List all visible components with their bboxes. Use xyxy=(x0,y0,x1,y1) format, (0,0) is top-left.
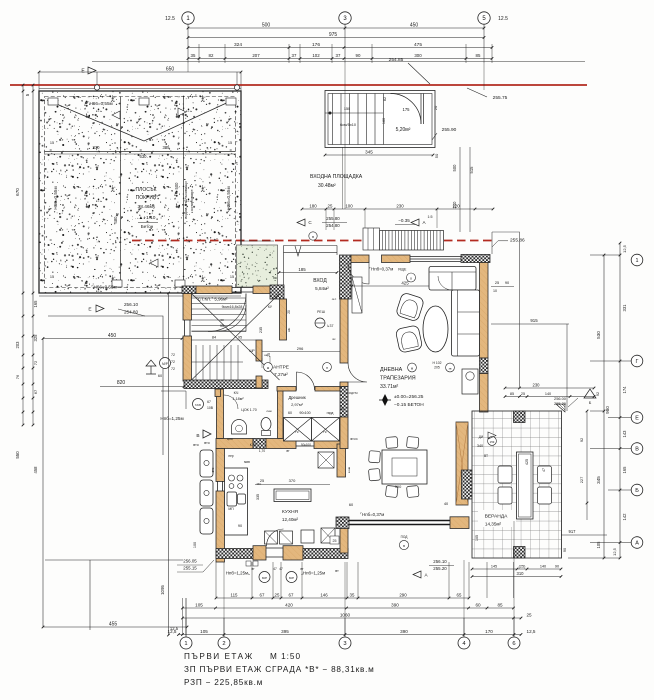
svg-text:2: 2 xyxy=(222,641,225,647)
svg-text:160: 160 xyxy=(382,118,386,124)
horizontal line y560 west xyxy=(45,559,183,561)
right chain line outer xyxy=(619,243,621,558)
wardrobe door arc xyxy=(297,372,315,391)
circled tag xyxy=(407,273,416,282)
svg-text:255.75: 255.75 xyxy=(493,95,508,101)
partition WC / wardrobe xyxy=(278,391,284,439)
marker B veranda xyxy=(488,432,496,439)
svg-text:255.20: 255.20 xyxy=(554,401,567,406)
veranda right ext line xyxy=(586,411,588,520)
svg-text:20: 20 xyxy=(433,105,438,110)
veranda ramp mark xyxy=(556,404,565,412)
svg-text:ПОКРИВ: ПОКРИВ xyxy=(136,195,157,201)
svg-text:142: 142 xyxy=(622,513,627,521)
dining chairs top xyxy=(386,437,398,449)
dining chairs left xyxy=(369,451,381,463)
vertical ext line x43 xyxy=(42,339,44,628)
circled tag dining xyxy=(399,540,408,549)
svg-text:450: 450 xyxy=(410,22,419,28)
svg-text:гард: гард xyxy=(327,411,334,415)
grille side steps left xyxy=(363,228,380,250)
svg-text:25: 25 xyxy=(328,203,333,208)
dim 185 vestibule xyxy=(279,272,337,274)
svg-text:500: 500 xyxy=(174,182,179,190)
dim 820 xyxy=(100,386,184,388)
svg-text:76: 76 xyxy=(15,374,20,379)
WC door arc xyxy=(224,395,238,409)
svg-text:180: 180 xyxy=(309,203,317,208)
svg-text:92: 92 xyxy=(596,392,600,396)
svg-text:ПОД: ПОД xyxy=(401,535,409,539)
svg-text:425: 425 xyxy=(525,459,529,465)
svg-text:230: 230 xyxy=(396,203,404,208)
svg-text:вт: вт xyxy=(286,449,290,453)
vestibule fixtures xyxy=(352,277,362,313)
axis line x345 xyxy=(343,63,346,209)
svg-text:H66=0,55м: H66=0,55м xyxy=(226,186,231,209)
overall 1095 vertical xyxy=(168,293,170,635)
bottom dim row 4 xyxy=(179,634,522,636)
svg-text:12,5: 12,5 xyxy=(622,244,627,253)
armchair 2 xyxy=(395,325,422,353)
svg-text:140: 140 xyxy=(540,564,546,568)
axis circle 5 top xyxy=(478,12,490,24)
svg-text:207: 207 xyxy=(252,53,260,58)
veranda posts xyxy=(514,411,526,423)
dim row 324/176/475 xyxy=(188,47,492,49)
svg-text:Бетон: Бетон xyxy=(141,224,154,229)
svg-text:105: 105 xyxy=(195,602,203,607)
svg-text:975: 975 xyxy=(329,32,338,38)
toilet xyxy=(261,418,271,431)
svg-text:820: 820 xyxy=(117,380,126,386)
stove circles xyxy=(229,475,235,481)
svg-text:290: 290 xyxy=(399,592,407,597)
svg-text:915: 915 xyxy=(530,318,538,323)
svg-text:Е: Е xyxy=(635,415,639,421)
svg-text:±0.00=256.25: ±0.00=256.25 xyxy=(394,394,424,400)
roof drain boxes top xyxy=(48,98,58,105)
svg-text:12,5: 12,5 xyxy=(612,547,617,556)
svg-text:15: 15 xyxy=(50,141,54,145)
svg-text:К.УЗ: К.УЗ xyxy=(250,443,257,447)
svg-text:255.80: 255.80 xyxy=(326,216,340,221)
svg-text:185: 185 xyxy=(298,267,306,272)
svg-text:390: 390 xyxy=(395,484,402,489)
wardrobe north wall xyxy=(277,387,296,392)
dim row 500/450 xyxy=(188,27,484,29)
kitchen north wall xyxy=(216,439,253,449)
svg-text:170: 170 xyxy=(485,629,493,634)
svg-text:1095: 1095 xyxy=(160,585,165,595)
svg-text:ФУКС: ФУКС xyxy=(350,437,359,441)
svg-text:146: 146 xyxy=(320,592,328,597)
svg-text:480: 480 xyxy=(113,216,118,224)
svg-text:25: 25 xyxy=(526,612,532,617)
svg-text:6: 6 xyxy=(512,641,515,647)
kitchen south wall xyxy=(216,549,253,559)
svg-text:ВТ: ВТ xyxy=(484,454,488,458)
svg-text:25: 25 xyxy=(275,592,280,597)
circled M/P tag xyxy=(160,358,171,369)
svg-text:65: 65 xyxy=(457,592,462,597)
circled tags hall xyxy=(264,363,273,372)
small hatch marks near green block xyxy=(240,240,274,242)
roof valley line left xyxy=(47,100,144,141)
roof drain boxes bottom xyxy=(112,280,122,287)
svg-text:25: 25 xyxy=(521,392,525,396)
svg-text:85: 85 xyxy=(510,392,514,396)
svg-text:огл: огл xyxy=(332,297,337,301)
svg-text:М/Р: М/Р xyxy=(162,362,168,366)
hall dim 296 xyxy=(262,351,340,353)
svg-text:105: 105 xyxy=(475,535,479,541)
svg-text:120: 120 xyxy=(452,203,460,208)
terrace outline line right xyxy=(492,232,520,388)
svg-text:310: 310 xyxy=(517,571,525,576)
svg-text:мив: мив xyxy=(244,460,250,464)
left lower dim chain xyxy=(23,316,33,425)
svg-text:256.10: 256.10 xyxy=(433,559,447,564)
svg-text:ШК: ШК xyxy=(287,328,291,333)
svg-text:475: 475 xyxy=(414,42,422,48)
svg-text:37: 37 xyxy=(292,53,297,58)
svg-text:12.5: 12.5 xyxy=(165,16,175,22)
svg-text:Hпб=1,25м⌞: Hпб=1,25м⌞ xyxy=(226,571,250,576)
svg-text:3: 3 xyxy=(343,641,346,647)
entry stair treads xyxy=(332,94,334,145)
kitchen door arc bottom xyxy=(267,529,284,546)
roof horizontal division xyxy=(45,151,236,153)
svg-text:980: 980 xyxy=(605,406,610,414)
sink xyxy=(227,492,237,506)
dining SE checker xyxy=(462,470,473,499)
circled thermo xyxy=(315,318,325,328)
marker E west xyxy=(96,305,104,312)
red dashed level line 255.86 xyxy=(132,240,492,242)
svg-text:20: 20 xyxy=(287,310,291,314)
svg-text:140: 140 xyxy=(545,392,551,396)
living west wall door gap arc xyxy=(348,363,367,382)
svg-text:370: 370 xyxy=(289,478,296,483)
stair treads xyxy=(192,297,247,299)
svg-text:165: 165 xyxy=(33,300,38,308)
axis circle 3 top xyxy=(339,12,351,24)
svg-text:254.80: 254.80 xyxy=(326,223,340,228)
kitchen west wall xyxy=(216,449,225,482)
svg-text:324: 324 xyxy=(234,42,242,48)
svg-text:10В: 10В xyxy=(207,406,214,410)
svg-text:15: 15 xyxy=(230,275,234,279)
roof inner dashed border xyxy=(45,97,236,288)
kitchen counter left xyxy=(225,468,248,535)
marker A xyxy=(411,219,419,226)
svg-text:12,5: 12,5 xyxy=(527,629,536,634)
svg-text:50: 50 xyxy=(434,153,439,158)
svg-text:6см/5х10: 6см/5х10 xyxy=(340,123,356,127)
svg-text:60: 60 xyxy=(158,374,162,378)
living east wall checker xyxy=(480,358,489,374)
entrance grille steps xyxy=(380,231,444,251)
svg-text:1:5: 1:5 xyxy=(428,215,433,219)
svg-text:650: 650 xyxy=(166,66,175,72)
living NE corner checker xyxy=(461,255,490,263)
svg-text:ЗП ПЪРВИ ЕТАЖ СГРАДА *В* − 88,: ЗП ПЪРВИ ЕТАЖ СГРАДА *В* − 88,31кв.м xyxy=(184,665,375,674)
svg-text:H66=0,55м: H66=0,55м xyxy=(53,186,58,209)
roof vertical division 2 xyxy=(183,97,185,288)
svg-text:10: 10 xyxy=(493,289,497,293)
tick squares south wall xyxy=(246,561,251,566)
svg-text:84: 84 xyxy=(212,336,216,340)
svg-text:203: 203 xyxy=(15,341,20,349)
svg-text:455: 455 xyxy=(109,621,118,627)
svg-text:67: 67 xyxy=(289,592,294,597)
svg-text:ЦОК 1.70: ЦОК 1.70 xyxy=(241,408,256,412)
veranda table xyxy=(517,452,534,519)
sofa corner cushion xyxy=(438,276,452,290)
svg-text:М 1:50: М 1:50 xyxy=(270,652,301,661)
svg-text:1: 1 xyxy=(184,641,187,647)
green planter block mid xyxy=(237,245,278,287)
svg-text:В: В xyxy=(635,446,639,452)
living north window xyxy=(410,257,461,262)
dim 450 xyxy=(43,338,182,340)
svg-text:о: о xyxy=(410,277,412,281)
axis ext verticals bottom xyxy=(223,562,225,637)
svg-text:(25): (25) xyxy=(519,564,526,568)
svg-text:МП: МП xyxy=(228,507,234,511)
vertical x90 xyxy=(89,560,91,630)
svg-text:174: 174 xyxy=(622,386,627,394)
right chain stub lines xyxy=(568,255,631,558)
svg-text:105: 105 xyxy=(200,629,208,634)
svg-text:Дрешник: Дрешник xyxy=(288,395,306,400)
svg-text:ДИ: ДИ xyxy=(479,435,484,439)
svg-text:B: B xyxy=(196,433,199,439)
svg-text:670: 670 xyxy=(15,188,20,196)
svg-text:95: 95 xyxy=(220,324,224,328)
svg-text:люк: люк xyxy=(266,409,272,413)
kitchen lower cabinets xyxy=(265,531,278,544)
stair block south checker strip xyxy=(184,380,268,389)
svg-text:205: 205 xyxy=(434,366,440,370)
svg-text:1060: 1060 xyxy=(340,612,351,617)
svg-text:917: 917 xyxy=(569,529,577,534)
svg-text:345: 345 xyxy=(365,149,373,154)
living west wall checker mid xyxy=(340,387,348,418)
svg-text:−0.35: −0.35 xyxy=(398,218,410,223)
svg-text:33.71м²: 33.71м² xyxy=(380,384,399,390)
svg-text:вто: вто xyxy=(204,441,209,445)
north arrow / level mark xyxy=(382,394,388,406)
svg-text:ЦОК: ЦОК xyxy=(227,437,233,441)
bottom dim row 3 xyxy=(183,617,522,619)
dim 345 below stair xyxy=(325,154,433,156)
svg-text:300: 300 xyxy=(414,53,422,58)
dining south wall checker west xyxy=(336,517,349,529)
fridge top right xyxy=(318,452,334,468)
915 line xyxy=(491,323,569,325)
stair block west wall xyxy=(183,294,192,321)
dining table xyxy=(382,450,427,484)
L extension line west xyxy=(48,316,163,455)
svg-text:630: 630 xyxy=(140,154,148,159)
roof slope arrows xyxy=(112,111,120,119)
svg-text:296: 296 xyxy=(297,346,304,351)
svg-text:50•100: 50•100 xyxy=(301,443,311,447)
veranda chairs right xyxy=(538,466,552,483)
svg-text:ГА/Б: ГА/Б xyxy=(195,403,201,407)
lower stair flight xyxy=(195,345,197,380)
svg-text:Б: Б xyxy=(635,488,639,494)
svg-text:в: в xyxy=(403,544,405,548)
svg-text:−0.15 БЕТОН: −0.15 БЕТОН xyxy=(394,402,424,408)
svg-text:227: 227 xyxy=(579,477,584,484)
kitchen SE wall stub xyxy=(340,517,348,553)
svg-text:15: 15 xyxy=(50,275,54,279)
svg-text:п: п xyxy=(326,366,328,370)
svg-text:2,97м²: 2,97м² xyxy=(291,402,304,407)
svg-text:9смх16,8х28: 9смх16,8х28 xyxy=(222,305,243,309)
svg-text:12,40м²: 12,40м² xyxy=(282,517,299,522)
marker B west xyxy=(203,430,211,438)
svg-text:ВХОД: ВХОД xyxy=(313,278,327,284)
svg-text:ШР: ШР xyxy=(249,349,255,353)
washbasin xyxy=(232,420,247,434)
small rect west xyxy=(161,391,186,409)
svg-text:143: 143 xyxy=(622,430,627,438)
svg-text:72: 72 xyxy=(171,367,175,371)
svg-text:35: 35 xyxy=(350,592,355,597)
axis stubs bottom xyxy=(185,618,187,637)
svg-text:М/Р: М/Р xyxy=(289,576,294,580)
roof vertical division 1 xyxy=(120,97,122,288)
svg-text:165: 165 xyxy=(622,466,627,474)
svg-text:⌜СТ.КЛ.⌝ 5,96м²: ⌜СТ.КЛ.⌝ 5,96м² xyxy=(196,297,228,302)
up arrow symbol xyxy=(146,360,156,366)
svg-text:450: 450 xyxy=(108,333,117,339)
svg-text:25: 25 xyxy=(333,539,337,543)
svg-text:230: 230 xyxy=(533,382,541,387)
stair block east wall xyxy=(280,299,287,340)
flat roof slab outline xyxy=(39,91,241,293)
veranda label xyxy=(478,510,516,527)
left dim chain xyxy=(22,85,24,316)
svg-text:256.10: 256.10 xyxy=(124,302,138,307)
svg-text:1,18м²: 1,18м² xyxy=(232,397,244,401)
svg-text:ок: ок xyxy=(220,318,224,322)
svg-text:530: 530 xyxy=(596,331,601,339)
svg-text:390: 390 xyxy=(391,602,399,607)
svg-text:Hпб=1,25м: Hпб=1,25м xyxy=(160,416,183,421)
entry door arc into vestibule xyxy=(348,263,369,285)
svg-text:вто: вто xyxy=(193,443,198,447)
svg-text:в: в xyxy=(312,235,314,239)
svg-text:МС: МС xyxy=(257,482,262,486)
stair walk line xyxy=(325,112,383,114)
svg-text:5,20м²: 5,20м² xyxy=(396,127,411,133)
svg-text:90: 90 xyxy=(555,564,559,568)
svg-text:82: 82 xyxy=(209,53,214,58)
svg-text:⌟Hпб=1,25м: ⌟Hпб=1,25м xyxy=(301,571,325,576)
svg-text:550: 550 xyxy=(15,451,20,459)
stair mid landing lines xyxy=(192,332,257,341)
svg-text:395: 395 xyxy=(281,629,289,634)
dining east hatched wall (door to veranda) xyxy=(456,422,468,505)
svg-text:КЧ: КЧ xyxy=(234,391,239,395)
svg-text:254.85: 254.85 xyxy=(389,57,404,63)
circled tag west wall xyxy=(193,399,204,410)
dim row 975 xyxy=(188,37,484,39)
svg-text:90: 90 xyxy=(238,524,242,528)
svg-text:92: 92 xyxy=(579,438,584,442)
armchair 1 xyxy=(395,292,424,322)
svg-text:вт: вт xyxy=(300,567,304,571)
svg-text:вх: вх xyxy=(332,337,336,341)
svg-text:АНТРЕ: АНТРЕ xyxy=(273,365,289,371)
svg-text:255.90: 255.90 xyxy=(442,127,457,133)
svg-text:5,84м²: 5,84м² xyxy=(315,286,329,291)
svg-text:335: 335 xyxy=(256,494,260,500)
svg-text:95: 95 xyxy=(238,336,242,340)
svg-text:КУХНЯ: КУХНЯ xyxy=(282,509,299,515)
svg-text:72: 72 xyxy=(171,360,175,364)
svg-text:РЕШ: РЕШ xyxy=(317,310,325,314)
bottom axis circles xyxy=(180,637,192,649)
right chain line inner xyxy=(603,255,605,558)
svg-text:255.15: 255.15 xyxy=(183,566,197,571)
hall west partition xyxy=(256,340,262,361)
svg-text:12,5: 12,5 xyxy=(168,629,177,634)
svg-text:175: 175 xyxy=(403,107,411,112)
extension verticals top chain xyxy=(187,24,189,63)
svg-text:М/Р: М/Р xyxy=(262,576,267,580)
svg-text:90•100: 90•100 xyxy=(299,411,310,415)
dim row 650 roof xyxy=(39,71,241,73)
veranda bottom dims xyxy=(472,568,561,570)
svg-text:255.20: 255.20 xyxy=(433,566,447,571)
marker B triangle top xyxy=(584,389,596,398)
WC west wall xyxy=(217,389,224,439)
vertical dims right of stair xyxy=(460,147,470,232)
living north wall xyxy=(351,255,369,263)
svg-text:255.86: 255.86 xyxy=(510,238,525,244)
sofa right section xyxy=(452,290,480,356)
mark C kitchen xyxy=(392,453,400,461)
917 line xyxy=(561,534,607,536)
svg-text:25: 25 xyxy=(495,280,499,285)
door pivot mark xyxy=(295,246,301,256)
svg-text:ГК: ГК xyxy=(323,430,327,434)
svg-text:25: 25 xyxy=(340,407,344,411)
svg-text:водок- отблъскващо: водок- отблъскващо xyxy=(183,181,188,219)
svg-text:85: 85 xyxy=(497,602,503,607)
svg-text:331: 331 xyxy=(622,304,627,312)
outdoor units west of kitchen xyxy=(200,450,213,477)
svg-text:14,35м²: 14,35м² xyxy=(485,522,502,527)
svg-text:котироване: котироване xyxy=(189,189,194,211)
svg-text:72: 72 xyxy=(33,360,38,365)
veranda top dims xyxy=(505,387,594,389)
marker C xyxy=(297,219,305,226)
svg-text:67: 67 xyxy=(260,592,265,597)
svg-text:⌜H66=0,55м: ⌜H66=0,55м xyxy=(91,285,116,290)
svg-text:90: 90 xyxy=(563,548,567,552)
long level line y61.5 xyxy=(92,61,585,63)
svg-text:35: 35 xyxy=(191,53,196,58)
bottom dim row 2 xyxy=(183,607,514,609)
svg-text:7,27м²: 7,27м² xyxy=(274,372,288,377)
